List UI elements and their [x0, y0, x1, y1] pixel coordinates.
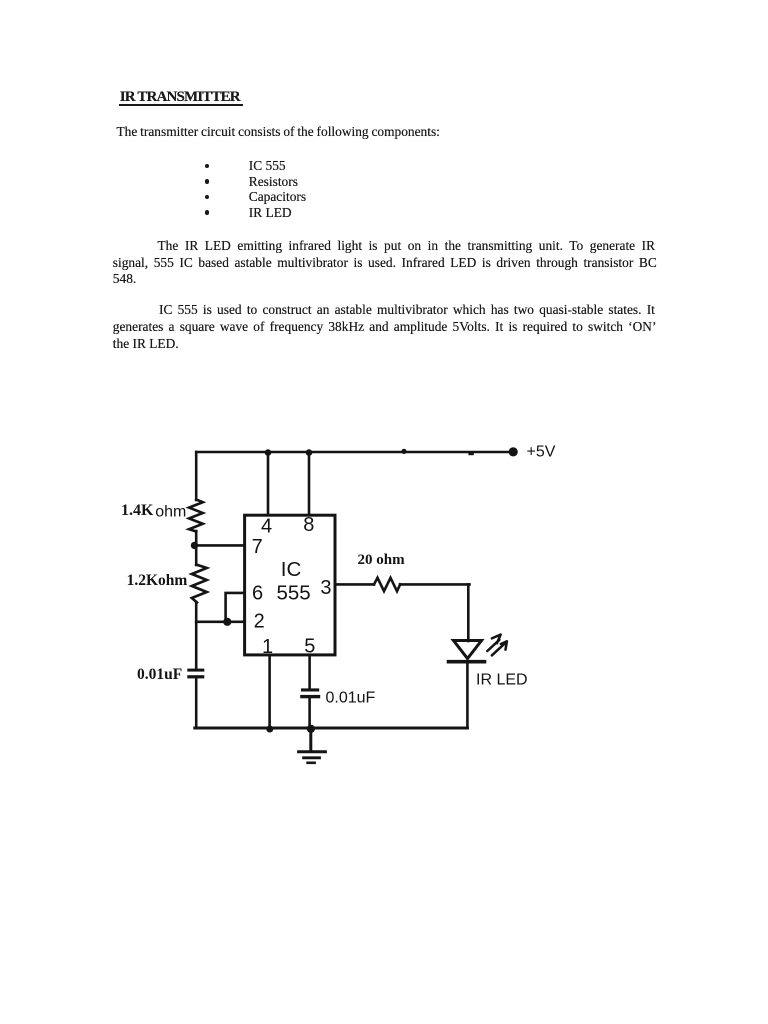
- svg-text:5: 5: [304, 635, 315, 657]
- wire: C2 bottom to ground rail: [308, 698, 311, 728]
- label: R1 value 1.4K ohm: [121, 502, 186, 521]
- resistor R1 (1.4K ohm): [189, 500, 203, 532]
- wire: R2 bottom down to capacitor C1: [195, 602, 198, 669]
- node: junction of pin-5 branch with ground rail: [307, 725, 315, 733]
- title: IR TRANSMITTER: [120, 90, 240, 105]
- wire: pin 3 to R3: [337, 583, 374, 586]
- wire: C1 bottom to ground rail: [195, 678, 198, 728]
- svg-text:2: 2: [254, 611, 265, 633]
- paragraph 2 line 3: [113, 272, 136, 287]
- paragraph 3 line 3: [113, 337, 179, 352]
- svg-text:0.01uF: 0.01uF: [326, 689, 376, 706]
- ground symbol: [299, 728, 326, 763]
- wire: pin 8 to +5V rail: [308, 452, 311, 515]
- svg-text:ohm: ohm: [155, 503, 186, 520]
- wire: LED branch vertical down to anode: [467, 584, 470, 641]
- wire: R1 bottom to node A: [195, 531, 198, 546]
- paragraph 3 line 2: [113, 320, 657, 335]
- wire: R3 to LED branch corner: [400, 583, 470, 586]
- paragraph 3 line 1: [159, 303, 655, 318]
- node A: junction of R1, R2 and pin-7 wire: [191, 542, 198, 549]
- svg-text:IR LED: IR LED: [476, 671, 528, 688]
- paragraph 2 line 2: [113, 256, 657, 271]
- svg-text:1: 1: [262, 636, 273, 658]
- wire: node A down to R2: [195, 545, 198, 565]
- wire: pin 6 loop to pin 2: [226, 593, 244, 622]
- node: junction of pin-1 wire with ground rail: [266, 726, 273, 733]
- wire: bottom ground rail: [195, 727, 468, 730]
- svg-text:3: 3: [320, 577, 331, 599]
- svg-text:7: 7: [252, 536, 263, 558]
- LED emission arrows: [487, 635, 507, 656]
- svg-text:IC: IC: [281, 558, 302, 581]
- svg-text:20 ohm: 20 ohm: [358, 552, 406, 568]
- node: junction of pin-6 loop with pin-2 wire: [223, 618, 231, 626]
- wire: pin 2 to left rail: [196, 620, 244, 623]
- svg-text:555: 555: [276, 581, 310, 604]
- svg-text:0.01uF: 0.01uF: [137, 666, 182, 683]
- wire: pin 1 to ground rail: [268, 656, 271, 728]
- svg-text:6: 6: [252, 583, 263, 605]
- wire: pin 7 to node A: [194, 544, 244, 547]
- op-amp/timer U1: IC 555 package outline: [245, 515, 335, 655]
- wire: pin 5 down to capacitor C2: [308, 656, 311, 689]
- wire: left rail from +5V down to R1: [195, 452, 198, 500]
- wire: LED cathode to ground rail: [466, 664, 469, 729]
- paragraph: components intro: [117, 125, 440, 140]
- capacitor C2 (0.01uF): [300, 688, 320, 698]
- resistor R2 (1.2Kohm): [192, 565, 207, 603]
- LED D1: IR LED triangle and cathode bar: [449, 641, 485, 662]
- svg-text:+5V: +5V: [527, 444, 556, 461]
- svg-text:1.2Kohm: 1.2Kohm: [127, 572, 188, 589]
- paragraph 2 line 1: [158, 239, 656, 254]
- node: junction of pin-4 wire with +5V rail: [265, 449, 272, 456]
- resistor R3 (20 ohm): [374, 578, 400, 591]
- node: tick mark on +5V rail: [468, 452, 473, 455]
- node: junction of pin-8 wire with +5V rail: [306, 449, 313, 456]
- svg-text:8: 8: [303, 514, 314, 536]
- bullet list: [205, 164, 209, 168]
- node: +5V terminal dot: [509, 447, 518, 456]
- wire: pin 4 to +5V rail: [267, 452, 270, 515]
- label: IC 555: [276, 558, 310, 604]
- svg-text:1.4K: 1.4K: [121, 502, 154, 519]
- capacitor C1 (0.01uF): [187, 669, 204, 679]
- node: small dot on +5V rail: [401, 449, 406, 454]
- svg-text:4: 4: [261, 516, 272, 538]
- wire: +5V top supply rail: [196, 451, 513, 454]
